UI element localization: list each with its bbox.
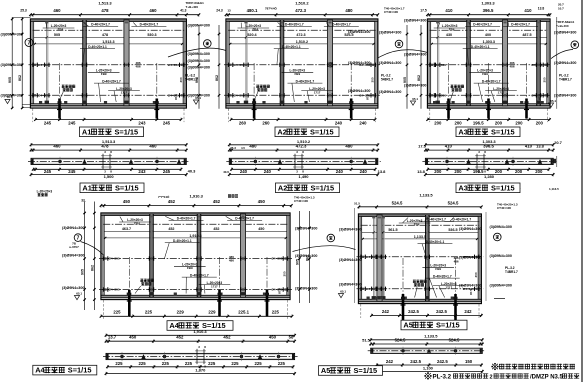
A1 plan label box <box>80 183 144 193</box>
svg-text:65.1: 65.1 <box>550 99 556 103</box>
svg-text:D-40×20×1.7: D-40×20×1.7 <box>332 23 351 27</box>
svg-text:862: 862 <box>417 75 421 81</box>
A2 bottom dimension row <box>228 109 376 126</box>
svg-text:(3)Ø9N4=300: (3)Ø9N4=300 <box>339 228 361 232</box>
A5 sill feet <box>367 297 454 300</box>
A2/A3 gap dimension column <box>403 25 422 109</box>
svg-text:FB9: FB9 <box>101 72 107 76</box>
datum circle A1/A2 <box>204 40 212 48</box>
svg-text:FB4: FB4 <box>414 223 420 227</box>
datum circle A4/A5 <box>327 234 335 242</box>
svg-text:452: 452 <box>223 334 231 339</box>
svg-text:478: 478 <box>101 143 109 148</box>
svg-text:D-40×20×1.7: D-40×20×1.7 <box>433 274 452 278</box>
svg-text:51.5: 51.5 <box>362 338 371 343</box>
svg-text:4.5: 4.5 <box>241 146 245 150</box>
svg-text:D-40×20×1.1: D-40×20×1.1 <box>88 45 107 49</box>
svg-text:1,513.3: 1,513.3 <box>102 139 116 144</box>
A2 elevation frame <box>226 19 378 108</box>
A4 internal horizontal rails and centerlines <box>99 224 292 292</box>
A1 mullions <box>43 20 129 106</box>
svg-text:548R1.7: 548R1.7 <box>381 77 393 81</box>
svg-text:A3: A3 <box>458 127 467 136</box>
svg-text:200: 200 <box>434 121 442 126</box>
svg-text:240: 240 <box>336 169 344 174</box>
svg-text:A1: A1 <box>82 183 91 192</box>
A3 interior bay dims <box>446 33 532 44</box>
A1 bottom dimension row <box>33 109 184 126</box>
datum circle A3 right <box>571 41 579 49</box>
A2 plan symbols <box>254 150 368 174</box>
svg-text:452: 452 <box>176 334 184 339</box>
svg-text:65.1: 65.1 <box>412 97 418 101</box>
svg-text:65.1: 65.1 <box>340 289 346 293</box>
svg-text:240: 240 <box>360 169 368 174</box>
A3 label box <box>456 127 520 137</box>
svg-text:260: 260 <box>239 121 247 126</box>
svg-text:D-40×20×1.7: D-40×20×1.7 <box>235 217 254 221</box>
svg-text:A5: A5 <box>403 321 412 330</box>
A5 label box <box>401 320 467 330</box>
datum circle 7 <box>25 39 33 47</box>
svg-text:40.3: 40.3 <box>188 169 197 174</box>
svg-text:7: 7 <box>28 40 31 46</box>
svg-text:200: 200 <box>515 169 523 174</box>
svg-text:D-40×20×1.7: D-40×20×1.7 <box>102 79 121 83</box>
svg-text:13.8: 13.8 <box>536 143 545 148</box>
svg-text:300: 300 <box>370 77 374 82</box>
svg-text:A5: A5 <box>321 366 330 375</box>
svg-text:200: 200 <box>455 121 463 126</box>
svg-text:505: 505 <box>54 33 60 37</box>
component labels (leaders) <box>119 216 286 294</box>
svg-text:51.5: 51.5 <box>354 202 360 206</box>
svg-text:1,303.3: 1,303.3 <box>483 40 495 44</box>
svg-text:13.7: 13.7 <box>108 334 117 339</box>
A1 label box <box>80 127 144 137</box>
svg-text:(3)Ø9N4=300: (3)Ø9N4=300 <box>404 84 426 88</box>
svg-text:A4: A4 <box>35 366 45 375</box>
svg-text:1,870: 1,870 <box>195 368 206 373</box>
svg-text:396.5: 396.5 <box>483 143 494 148</box>
A2 mullions <box>243 20 334 106</box>
svg-text:240: 240 <box>359 121 367 126</box>
svg-text:225: 225 <box>272 310 280 315</box>
svg-text:1,100: 1,100 <box>423 365 434 370</box>
svg-text:(3)Ø9N4=300: (3)Ø9N4=300 <box>188 59 210 63</box>
A3 elevation frame <box>428 19 551 108</box>
svg-text:D-40×20×1.1: D-40×20×1.1 <box>471 45 490 49</box>
A4 plan label box <box>33 365 97 375</box>
svg-text:87.5: 87.5 <box>278 288 282 294</box>
component labels (leaders) <box>238 22 375 102</box>
svg-text:17.5: 17.5 <box>420 9 427 13</box>
svg-text:200: 200 <box>434 169 442 174</box>
svg-text:87.5: 87.5 <box>365 94 369 100</box>
svg-text:410: 410 <box>524 8 532 13</box>
note: PL-3.2 phosphate note <box>425 373 580 381</box>
A5 internal horizontal rails and centerlines <box>357 225 484 291</box>
svg-text:(3)Ø9N4=300: (3)Ø9N4=300 <box>459 284 481 288</box>
svg-text:2: 2 <box>490 375 493 381</box>
svg-text:20.7: 20.7 <box>558 3 564 7</box>
svg-text:245: 245 <box>44 121 52 126</box>
svg-text:FB9: FB9 <box>482 72 488 76</box>
svg-text:478: 478 <box>101 8 109 13</box>
A4 left annotations <box>62 198 86 299</box>
svg-text:1,510.2: 1,510.2 <box>296 40 308 44</box>
svg-text:242: 242 <box>464 309 472 314</box>
A5 dimensions <box>362 333 483 373</box>
svg-text:524.5: 524.5 <box>395 338 406 343</box>
svg-text:225: 225 <box>231 361 239 366</box>
datum circle A5 right <box>494 233 502 241</box>
svg-text:(3)Ø9N4=300: (3)Ø9N4=300 <box>1 63 23 67</box>
svg-text:(3)Ø9N4=300: (3)Ø9N4=300 <box>404 19 426 23</box>
svg-text:486: 486 <box>229 258 234 262</box>
svg-text:242: 242 <box>386 359 394 364</box>
svg-text:58: 58 <box>289 334 294 339</box>
svg-text:CT40×100: CT40×100 <box>497 206 511 210</box>
A5 top dimension row <box>358 193 483 210</box>
leader arc A2/A3 <box>378 50 428 58</box>
svg-text:S=1/15: S=1/15 <box>310 127 334 136</box>
svg-text:452: 452 <box>168 199 176 204</box>
svg-text:(3)Ø9N4=300: (3)Ø9N4=300 <box>379 61 401 65</box>
svg-text:1,910.3: 1,910.3 <box>193 329 207 334</box>
svg-text:862: 862 <box>215 75 219 81</box>
svg-text:CT40×100: CT40×100 <box>384 10 398 14</box>
svg-text:480: 480 <box>345 8 353 13</box>
svg-text:(3)Ø9N4=300: (3)Ø9N4=300 <box>348 30 370 34</box>
A2 plan label box <box>276 183 340 193</box>
A2 plan note <box>223 146 245 198</box>
svg-text:(3)Ø9N4=300: (3)Ø9N4=300 <box>490 225 512 229</box>
svg-text:524.5: 524.5 <box>392 200 403 205</box>
svg-text:225: 225 <box>162 361 170 366</box>
svg-text:410: 410 <box>445 143 453 148</box>
A3 top dimension row <box>426 1 551 17</box>
A5 plan strip <box>368 348 486 353</box>
svg-text:1717: 1717 <box>498 90 505 94</box>
svg-text:300: 300 <box>543 77 547 82</box>
svg-text:87.5: 87.5 <box>174 94 178 100</box>
svg-text:524.5: 524.5 <box>449 338 460 343</box>
svg-text:20.7: 20.7 <box>554 140 563 145</box>
svg-text:A3: A3 <box>458 183 467 192</box>
svg-text:D-40×20×1.1: D-40×20×1.1 <box>282 45 301 49</box>
svg-text:486: 486 <box>454 259 459 263</box>
A2 top dimension row <box>225 1 379 17</box>
A1 plan symbols <box>58 150 181 174</box>
svg-text:Ø4=300: Ø4=300 <box>168 63 179 67</box>
svg-text:(3)Ø9N4=300: (3)Ø9N4=300 <box>379 31 401 35</box>
svg-text:242.5: 242.5 <box>408 309 419 314</box>
svg-text:1,910.3: 1,910.3 <box>190 193 204 198</box>
svg-text:10.7: 10.7 <box>558 7 564 11</box>
svg-text:D-40×20×1.1: D-40×20×1.1 <box>173 239 192 243</box>
svg-text:13: 13 <box>227 9 231 13</box>
svg-text:905: 905 <box>81 269 85 275</box>
A1 interior bay dims <box>54 33 157 44</box>
A1 plan note <box>37 189 53 196</box>
svg-text:87.5: 87.5 <box>538 94 542 100</box>
A2 point note <box>265 6 278 11</box>
svg-text:225: 225 <box>278 361 286 366</box>
svg-text:1,910.3: 1,910.3 <box>189 234 201 238</box>
svg-text:452: 452 <box>213 199 221 204</box>
svg-text:D-40×20×1.7: D-40×20×1.7 <box>452 218 471 222</box>
svg-text:D-40×20×1.7: D-40×20×1.7 <box>285 23 304 27</box>
svg-text:460: 460 <box>149 143 157 148</box>
A4 sill feet <box>127 293 266 296</box>
svg-text:40.6: 40.6 <box>223 170 229 174</box>
svg-text:1,303.3: 1,303.3 <box>481 1 495 6</box>
svg-text:FB4: FB4 <box>252 28 258 32</box>
svg-text:(3)Ø9N4=300: (3)Ø9N4=300 <box>554 61 576 65</box>
A3 internal horizontal rails and centerlines <box>426 30 553 97</box>
svg-text:240: 240 <box>240 169 248 174</box>
svg-text:1,303.3: 1,303.3 <box>482 139 496 144</box>
svg-text:25.3: 25.3 <box>230 146 236 150</box>
A2 right-bay anchor labels <box>348 30 370 93</box>
svg-text:300: 300 <box>474 272 478 277</box>
svg-text:S=1/15: S=1/15 <box>311 183 335 192</box>
svg-text:(3)Ø9N4=300: (3)Ø9N4=300 <box>348 89 370 93</box>
svg-text:200: 200 <box>535 169 543 174</box>
svg-text:242.5: 242.5 <box>410 359 421 364</box>
svg-text:(3)Ø9N4=300: (3)Ø9N4=300 <box>490 284 512 288</box>
component labels (leaders) <box>43 22 183 102</box>
svg-text:(3)Ø9N4=300: (3)Ø9N4=300 <box>379 90 401 94</box>
svg-text:225: 225 <box>139 361 147 366</box>
A2 top-right note <box>384 7 405 15</box>
svg-text:242: 242 <box>382 309 390 314</box>
svg-text:65.1: 65.1 <box>7 95 13 99</box>
A4/A5 gap dimension column <box>296 211 311 303</box>
svg-text:Ø4=300: Ø4=300 <box>271 257 282 261</box>
svg-text:(3)Ø9N4=300: (3)Ø9N4=300 <box>348 61 370 65</box>
svg-text:1,513.3: 1,513.3 <box>98 1 112 6</box>
svg-text:FB9: FB9 <box>187 266 193 270</box>
svg-text:242.5: 242.5 <box>437 359 448 364</box>
A5 right extension line <box>485 212 487 301</box>
svg-text:S=1/15: S=1/15 <box>354 366 378 375</box>
svg-text:PL-3.2: PL-3.2 <box>433 374 452 381</box>
A3 plan symbols <box>445 150 542 174</box>
svg-text:225: 225 <box>145 310 153 315</box>
svg-text:FB9: FB9 <box>435 267 441 271</box>
svg-text:245: 245 <box>68 121 76 126</box>
svg-text:(3)Ø9N4=300: (3)Ø9N4=300 <box>339 258 361 262</box>
svg-text:1717: 1717 <box>121 90 128 94</box>
A2/A3 gap annotations <box>379 9 427 106</box>
svg-text:13.8: 13.8 <box>538 7 545 11</box>
svg-text:472.3: 472.3 <box>295 8 306 13</box>
svg-text:Ø4=300: Ø4=300 <box>109 288 120 292</box>
svg-text:u-0707: u-0707 <box>69 245 79 249</box>
svg-text:(3)Ø9N4=300: (3)Ø9N4=300 <box>1 32 23 36</box>
svg-text:229: 229 <box>177 310 185 315</box>
svg-text:1717: 1717 <box>445 285 452 289</box>
svg-text:450: 450 <box>269 334 277 339</box>
A3 mullions <box>434 20 542 106</box>
svg-text:480: 480 <box>249 143 257 148</box>
svg-text:D-40×20×1.1: D-40×20×1.1 <box>426 240 445 244</box>
A5 right-bay anchor labels <box>459 227 481 288</box>
svg-text:Ø4=300: Ø4=300 <box>109 257 120 261</box>
svg-text:24.3: 24.3 <box>216 9 223 13</box>
svg-text:T4BR1.7: T4BR1.7 <box>559 77 572 81</box>
A2 anchor bolts <box>252 63 354 119</box>
svg-text:S=1/15: S=1/15 <box>436 321 460 330</box>
svg-text:T4BR1.7: T4BR1.7 <box>505 270 518 274</box>
A2 plan strip <box>226 158 380 164</box>
svg-text:(3)Ø9N4=300: (3)Ø9N4=300 <box>62 286 84 290</box>
svg-text:225.1: 225.1 <box>238 310 249 315</box>
A5 mullions <box>370 215 430 301</box>
A1 left dimension column <box>8 17 23 109</box>
A1 top dimension row <box>29 1 200 17</box>
svg-text:D-40×20×1.7: D-40×20×1.7 <box>427 218 446 222</box>
svg-text:FB4: FB4 <box>134 222 140 226</box>
svg-text:410: 410 <box>445 8 453 13</box>
svg-text:450: 450 <box>258 199 266 204</box>
svg-text:D-40×20×1.7: D-40×20×1.7 <box>482 79 501 83</box>
svg-text:472.3: 472.3 <box>296 33 305 37</box>
svg-text:A1: A1 <box>82 127 91 136</box>
svg-text:200: 200 <box>536 121 544 126</box>
svg-text:524.5: 524.5 <box>448 200 459 205</box>
svg-text:D-40×20×1.7: D-40×20×1.7 <box>473 23 492 27</box>
svg-text:1,133.5: 1,133.5 <box>414 235 426 239</box>
svg-text:T+B+400: T+B+400 <box>186 5 199 9</box>
A4 label box <box>167 321 233 331</box>
A4 anchor bolts <box>127 257 270 317</box>
svg-text:225: 225 <box>113 310 121 315</box>
svg-text:(3)Ø9N4=300: (3)Ø9N4=300 <box>490 254 512 258</box>
svg-text:242.5: 242.5 <box>436 309 447 314</box>
A1 top-right note <box>186 1 205 9</box>
datum circle A4 left <box>74 234 82 242</box>
svg-text:FB4: FB4 <box>449 28 455 32</box>
svg-text:200: 200 <box>454 169 462 174</box>
svg-text:(3)Ø9N4=300: (3)Ø9N4=300 <box>404 53 426 57</box>
A5 elevation frame <box>359 214 482 304</box>
svg-text:410: 410 <box>525 143 533 148</box>
svg-text:530.3: 530.3 <box>147 33 156 37</box>
svg-text:7: 7 <box>77 236 80 242</box>
svg-text:486: 486 <box>135 64 140 68</box>
component labels (leaders) <box>434 22 547 102</box>
svg-text:472.3: 472.3 <box>296 143 307 148</box>
A4 elevation frame <box>101 213 290 300</box>
svg-text:1,490: 1,490 <box>298 174 309 179</box>
svg-text:S=1/15: S=1/15 <box>115 183 139 192</box>
A1 left annotations <box>1 9 187 108</box>
A2 interior bay dims <box>247 33 353 44</box>
svg-text:200: 200 <box>495 121 503 126</box>
svg-text:536.5: 536.5 <box>448 228 457 232</box>
svg-text:1,510.2: 1,510.2 <box>295 1 309 6</box>
svg-text:862: 862 <box>18 75 22 81</box>
A4 top dimension row <box>100 193 293 207</box>
svg-text:245: 245 <box>163 169 171 174</box>
svg-text:(3)Ø9N4=300: (3)Ø9N4=300 <box>459 227 481 231</box>
leader arc A1/A2 <box>168 48 226 57</box>
svg-text:229: 229 <box>208 310 216 315</box>
svg-text:/DMZP N3.5: /DMZP N3.5 <box>530 375 564 381</box>
A2 label box <box>275 127 339 137</box>
svg-text:245: 245 <box>163 121 171 126</box>
svg-text:430: 430 <box>446 33 452 37</box>
A2 dimensions <box>228 139 386 179</box>
A1/A2 gap annotations <box>185 9 231 105</box>
svg-text:1,510.2: 1,510.2 <box>297 139 311 144</box>
svg-text:17.5: 17.5 <box>418 143 427 148</box>
svg-text:225: 225 <box>255 361 263 366</box>
svg-text:480: 480 <box>345 143 353 148</box>
A3 plan label box <box>456 183 520 193</box>
svg-text:D-40×20×1.7: D-40×20×1.7 <box>296 79 315 83</box>
A4 mullions <box>148 214 246 297</box>
svg-text:862: 862 <box>90 265 94 271</box>
svg-text:240: 240 <box>264 169 272 174</box>
svg-text:787*¢4Ò: 787*¢4Ò <box>265 6 278 11</box>
svg-text:D-40×20×1.7: D-40×20×1.7 <box>511 23 530 27</box>
svg-text:T+B+400: T+B+400 <box>556 24 569 28</box>
svg-text:463.7: 463.7 <box>122 227 131 231</box>
svg-text:460: 460 <box>53 143 61 148</box>
svg-text:1,133.5: 1,133.5 <box>424 333 438 338</box>
svg-text:41.3: 41.3 <box>180 9 186 13</box>
A4 dimensions <box>105 329 296 376</box>
svg-text:480.1: 480.1 <box>247 8 258 13</box>
svg-text:1,500: 1,500 <box>104 174 115 179</box>
svg-text:478: 478 <box>102 33 108 37</box>
svg-text:460: 460 <box>53 8 61 13</box>
svg-text:300: 300 <box>283 271 287 276</box>
svg-text:33.: 33. <box>81 198 86 202</box>
component labels (leaders) <box>399 217 480 297</box>
svg-text:150: 150 <box>465 359 473 364</box>
svg-text:(3)Ø9N4=300: (3)Ø9N4=300 <box>188 52 210 56</box>
svg-text:196.5: 196.5 <box>473 169 484 174</box>
svg-text:487.5: 487.5 <box>522 33 531 37</box>
svg-text:CT40×100: CT40×100 <box>294 199 308 203</box>
svg-text:1,280: 1,280 <box>484 174 495 179</box>
svg-text:1717: 1717 <box>314 90 321 94</box>
A5 anchor bolts <box>401 258 459 321</box>
A4 point note <box>158 194 170 199</box>
svg-text:245: 245 <box>44 169 52 174</box>
leader arc A3 right <box>551 50 573 59</box>
A4/A5 gap annotations <box>294 196 361 298</box>
A4 interior bay dims <box>122 227 264 238</box>
A3 plan right end detail <box>503 156 559 191</box>
svg-text:A2: A2 <box>278 183 287 192</box>
A5 right annotations <box>490 202 518 298</box>
svg-text:S=1/15: S=1/15 <box>491 183 515 192</box>
svg-text:A4: A4 <box>169 321 179 330</box>
svg-text:905: 905 <box>8 77 12 83</box>
svg-text:(3)Ø9N4=300: (3)Ø9N4=300 <box>295 287 317 291</box>
A4 plan strip <box>103 353 298 359</box>
svg-text:L-20×20×3: L-20×20×3 <box>37 189 53 193</box>
svg-text:243: 243 <box>138 169 146 174</box>
leader arc A4 left <box>81 242 105 256</box>
svg-text:225: 225 <box>115 361 123 366</box>
